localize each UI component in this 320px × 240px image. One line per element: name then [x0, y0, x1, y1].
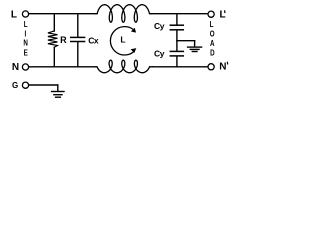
svg-text:I: I: [25, 31, 27, 39]
svg-text:D: D: [210, 50, 215, 58]
svg-text:Cy: Cy: [154, 49, 165, 59]
svg-text:Cy: Cy: [154, 21, 165, 31]
svg-text:G: G: [12, 81, 18, 90]
svg-text:L: L: [24, 22, 28, 30]
svg-text:L: L: [11, 10, 17, 21]
svg-text:N: N: [219, 62, 226, 73]
svg-text:O: O: [210, 31, 215, 39]
svg-text:E: E: [24, 50, 28, 58]
svg-text:A: A: [210, 40, 215, 48]
svg-text:N: N: [23, 40, 28, 48]
svg-text:Cx: Cx: [88, 36, 99, 46]
svg-text:L: L: [220, 9, 226, 20]
svg-text:N: N: [12, 62, 19, 73]
svg-text:L: L: [210, 22, 214, 30]
svg-text:L: L: [120, 35, 125, 45]
svg-text:R: R: [60, 35, 67, 45]
